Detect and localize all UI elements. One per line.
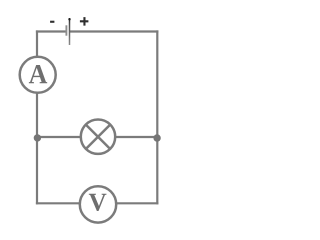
ammeter A1 circle — [20, 57, 56, 93]
voltmeter letter V — [89, 194, 107, 211]
wire: middle branch right segment (lamp to right junction) — [116, 136, 157, 138]
wire: left vertical upper segment (top corner to ammeter) — [36, 30, 38, 56]
wire: bottom left segment (bottom corner to voltmeter) — [36, 202, 79, 204]
junction node right — [153, 134, 160, 141]
wire: battery positive plate to top-right corner — [70, 30, 158, 32]
voltmeter V1 circle — [80, 186, 116, 222]
wire: top-left segment to battery negative plate — [36, 30, 66, 32]
label + (positive terminal) — [80, 17, 89, 26]
lamp cross stroke 1 — [86, 125, 110, 149]
wire: left vertical lower segment (ammeter to bottom corner) — [36, 94, 38, 205]
ammeter letter A — [29, 65, 47, 83]
label - (negative terminal) — [50, 21, 54, 23]
junction node left — [34, 134, 41, 141]
battery B1 negative plate (short) — [65, 25, 67, 35]
wire: middle branch left segment (left junction to lamp) — [37, 136, 80, 138]
battery positive plate dark tip — [68, 18, 70, 20]
wire: right vertical (top corner to bottom corner) — [156, 30, 158, 204]
lamp L1 circle — [81, 120, 115, 154]
wire: bottom right segment (voltmeter to bottom corner) — [117, 202, 159, 204]
lamp cross stroke 2 — [86, 125, 110, 149]
